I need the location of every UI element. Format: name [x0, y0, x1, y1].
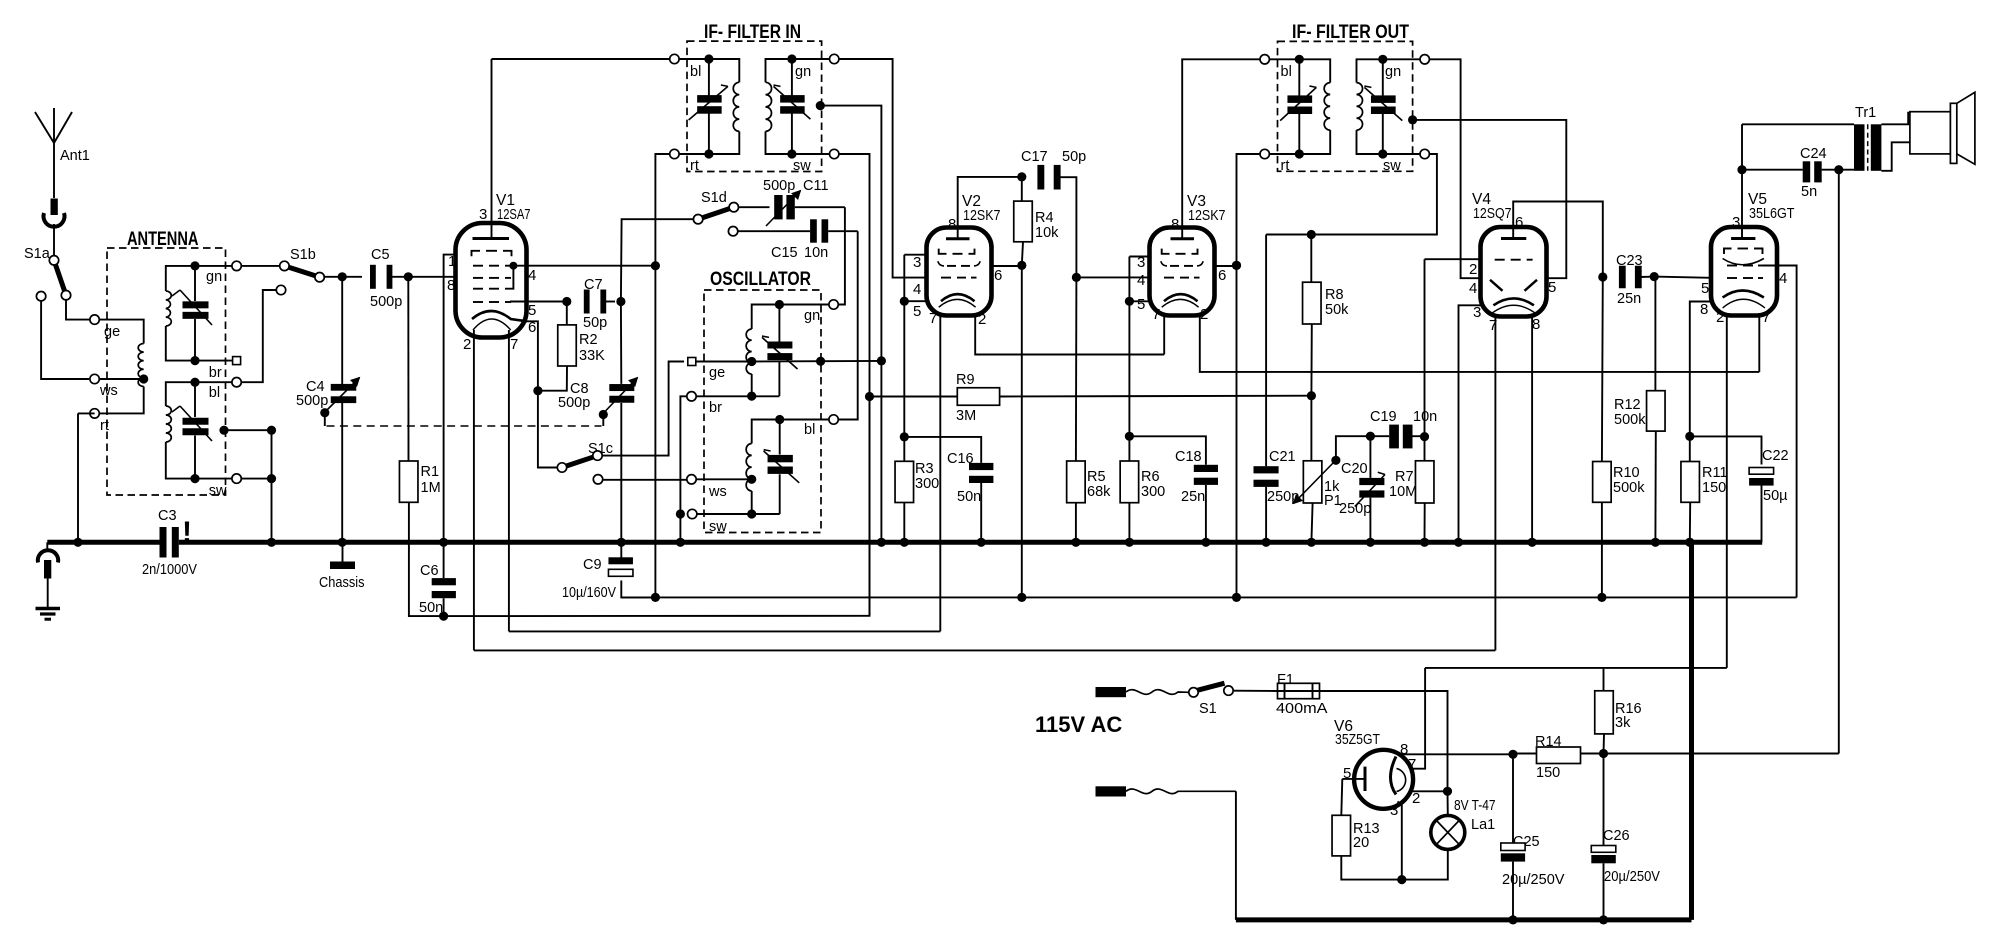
svg-text:2: 2 — [978, 311, 986, 328]
svg-text:8: 8 — [948, 216, 956, 233]
wire volume node to V4 grid — [1425, 258, 1481, 260]
OSCILLATOR box — [704, 269, 821, 533]
wire S1c to oscillator ge — [602, 362, 684, 456]
tube V3 12SK7 envelope — [1150, 193, 1226, 316]
terminal rt (IF in) — [670, 149, 709, 174]
capacitor C17 — [1017, 149, 1086, 277]
capacitor C21 — [1254, 235, 1300, 547]
V5 grid rows — [1723, 249, 1764, 279]
svg-text:35L6GT: 35L6GT — [1749, 205, 1795, 222]
svg-text:33K: 33K — [579, 348, 605, 364]
V6 pin 8 wire to R14 — [1400, 750, 1518, 759]
svg-text:C26: C26 — [1603, 828, 1630, 844]
ground bus (chassis rail) — [47, 540, 1762, 545]
chassis symbol — [319, 545, 365, 591]
svg-text:ge: ge — [104, 324, 120, 340]
svg-text:IF- FILTER OUT: IF- FILTER OUT — [1292, 22, 1409, 43]
svg-text:4: 4 — [1469, 280, 1477, 297]
svg-text:4: 4 — [528, 267, 536, 284]
svg-text:R1: R1 — [421, 464, 440, 480]
svg-text:rt: rt — [690, 158, 699, 174]
heater line V1 pin7 to V2 pin7 — [509, 630, 940, 632]
capacitor C18 — [1129, 436, 1218, 547]
svg-text:4: 4 — [1779, 270, 1787, 287]
V5 plate (pin 3) — [1731, 124, 1755, 238]
wire F1 to V6 heater pin 2 — [1320, 691, 1453, 796]
svg-text:7: 7 — [1408, 756, 1416, 773]
resistor R12 — [1614, 277, 1665, 547]
oscillator coil lower with tap — [746, 415, 784, 519]
terminal ws — [90, 374, 118, 399]
svg-text:2: 2 — [1412, 790, 1420, 807]
wire V3 plate to IF-out bl — [0, 0, 1, 1]
svg-text:R3: R3 — [915, 461, 934, 477]
V5 cathode — [1723, 291, 1765, 309]
V4 heater pin 7 — [1494, 314, 1496, 650]
svg-text:La1: La1 — [1471, 817, 1495, 833]
svg-text:50p: 50p — [1062, 149, 1086, 165]
svg-text:300: 300 — [915, 476, 939, 492]
svg-text:sw: sw — [709, 519, 727, 535]
heater line V6 to V5 — [1425, 667, 1727, 669]
V4 cathode — [1491, 298, 1537, 314]
resistor R1 — [399, 277, 443, 616]
svg-text:7: 7 — [1762, 309, 1770, 326]
svg-text:C20: C20 — [1341, 461, 1368, 477]
svg-text:8: 8 — [1171, 216, 1179, 233]
gang coupling dashed line C4-C8 — [327, 425, 602, 427]
wire S1a spare contact to ws — [36, 292, 89, 380]
svg-text:R2: R2 — [579, 332, 598, 348]
potentiometer P1 — [1294, 396, 1371, 547]
V6 pin labels — [1343, 741, 1420, 819]
label 115V AC — [1035, 712, 1122, 737]
svg-text:R5: R5 — [1087, 469, 1106, 485]
svg-text:7: 7 — [1152, 306, 1160, 323]
svg-text:4: 4 — [1137, 272, 1145, 289]
tuned circuit cap lower (antenna) — [172, 378, 212, 484]
svg-text:3: 3 — [913, 254, 921, 271]
terminal sw (IF out) — [1383, 149, 1430, 174]
svg-text:12SQ7: 12SQ7 — [1473, 205, 1512, 222]
mains lead upper — [1096, 687, 1190, 697]
svg-text:ws: ws — [708, 484, 727, 500]
svg-text:8: 8 — [1532, 316, 1540, 333]
V2 grid rows — [938, 249, 980, 278]
resistor R6 — [1120, 461, 1165, 547]
wire rt to ground bus — [73, 413, 82, 547]
svg-text:20µ/250V: 20µ/250V — [1604, 869, 1660, 885]
svg-text:150: 150 — [1702, 480, 1726, 496]
switch S1b — [241, 247, 324, 282]
terminal gn (IF out) — [1383, 55, 1430, 80]
capacitor C7 — [583, 277, 615, 331]
tube V5 35L6GT envelope — [1711, 191, 1795, 316]
terminal rt (IF out) — [1260, 149, 1299, 174]
V2 pin 6 wire (screen) — [992, 261, 1027, 284]
wire S1a to ge terminal — [66, 300, 90, 320]
V3 heater pin 7 — [1152, 306, 1164, 355]
svg-text:rt: rt — [1281, 158, 1290, 174]
IF-out primary tuned cap — [1280, 55, 1316, 159]
svg-text:Chassis: Chassis — [319, 575, 365, 591]
svg-text:10µ/160V: 10µ/160V — [562, 585, 616, 601]
svg-text:S1d: S1d — [701, 190, 727, 206]
terminal bl (IF out) — [1260, 55, 1299, 80]
V1 pin 4 wire (screen grids) — [513, 261, 660, 284]
V1 heater pin 7 — [509, 330, 518, 631]
svg-text:150: 150 — [1536, 765, 1560, 781]
svg-text:gn: gn — [206, 269, 222, 285]
svg-text:C22: C22 — [1762, 448, 1789, 464]
IF-in secondary tuned cap — [774, 54, 811, 158]
svg-text:3k: 3k — [1615, 715, 1631, 731]
svg-text:68k: 68k — [1087, 484, 1111, 500]
svg-text:6: 6 — [1218, 267, 1226, 284]
wire ge tap out to right — [752, 357, 882, 366]
svg-text:S1: S1 — [1199, 701, 1217, 717]
resistor R3 — [895, 461, 939, 547]
wire IF-in rt to screen supply — [655, 154, 670, 597]
V3 pin 4 label — [1137, 272, 1145, 289]
wire C5 to V1 grid — [390, 272, 456, 281]
wire S1b to C5 and C4 — [324, 272, 362, 281]
variable capacitor C4 — [296, 277, 360, 547]
V6 filament — [1391, 757, 1406, 795]
tube V1 12SA7 envelope — [456, 192, 531, 338]
svg-text:rt: rt — [100, 418, 109, 434]
wire IF-in gn to V2 grid — [839, 59, 927, 278]
switch S1c spare contact to ws — [593, 475, 687, 484]
svg-text:5: 5 — [913, 303, 921, 320]
V3 plate lead (pin 8) — [1171, 59, 1261, 239]
svg-text:3: 3 — [1473, 304, 1481, 321]
svg-text:OSCILLATOR: OSCILLATOR — [710, 269, 811, 290]
IF-out secondary tap to V4 diode — [1408, 115, 1566, 278]
svg-text:ge: ge — [709, 365, 725, 381]
V4 cathode pin 3 wire to ground — [1454, 305, 1481, 547]
svg-text:50k: 50k — [1325, 302, 1349, 318]
V6 cathode plate — [1342, 767, 1365, 791]
svg-text:500p: 500p — [370, 294, 402, 310]
svg-text:sw: sw — [793, 158, 811, 174]
svg-text:C11: C11 — [803, 178, 829, 194]
antenna secondary coil lower — [166, 382, 195, 478]
svg-text:br: br — [209, 365, 222, 381]
svg-text:5: 5 — [1137, 296, 1145, 313]
svg-text:6: 6 — [1515, 214, 1523, 231]
resistor R7 — [1389, 259, 1434, 547]
V3 grid rows — [1161, 249, 1203, 278]
pilot lamp La1 8V T-47 — [1402, 791, 1496, 879]
svg-text:12SK7: 12SK7 — [1188, 207, 1226, 224]
V5 heater pin 2 — [1716, 309, 1727, 668]
V6 pin 2 wire — [1411, 790, 1448, 792]
svg-text:3M: 3M — [956, 408, 976, 424]
wire S1d to V1 osc grid node — [621, 219, 694, 301]
switch S1c — [557, 441, 613, 472]
switch S1a — [24, 246, 71, 300]
wire R14 node to output transformer — [1604, 753, 1839, 755]
svg-text:25n: 25n — [1181, 489, 1205, 505]
svg-text:S1a: S1a — [24, 246, 51, 262]
oscillator tuned cap upper — [762, 305, 798, 397]
capacitor C16 — [904, 437, 993, 547]
svg-text:3: 3 — [479, 206, 487, 223]
V1 pin 8 label — [447, 277, 455, 294]
heater line V1 pin2 to V4 pin7 — [474, 649, 1496, 651]
terminal ge — [90, 315, 120, 340]
svg-text:300: 300 — [1141, 484, 1165, 500]
svg-text:3: 3 — [1390, 802, 1398, 819]
wire V1 plate to IF-in bl — [492, 58, 670, 60]
V5 heater pin 7 — [1759, 309, 1770, 372]
V6 pin 3 wire — [1397, 802, 1406, 885]
terminal br (oscillator) — [687, 392, 780, 416]
V1 pin 5 wire (osc grid) — [510, 297, 571, 319]
node br (antenna) — [195, 357, 241, 381]
capacitor C24 — [1742, 146, 1854, 200]
resistor R8 — [1303, 235, 1350, 396]
svg-text:C9: C9 — [583, 557, 602, 573]
transformer Tr1 — [1742, 105, 1881, 171]
svg-text:12SK7: 12SK7 — [963, 207, 1001, 224]
antenna Ant1 — [35, 108, 90, 198]
svg-text:bl: bl — [209, 385, 220, 401]
svg-text:bl: bl — [804, 422, 815, 438]
wire S1b spare contact to bl — [241, 285, 285, 382]
svg-text:35Z5GT: 35Z5GT — [1335, 731, 1380, 748]
resistor R10 — [1593, 277, 1646, 602]
AVC line — [444, 392, 875, 616]
svg-text:500k: 500k — [1614, 412, 1646, 428]
V4 grid row — [1495, 259, 1533, 261]
IF-out secondary coil — [1357, 59, 1383, 154]
svg-text:3: 3 — [1732, 214, 1740, 231]
switch S1 (mains) — [1189, 683, 1233, 717]
node sw (antenna) — [195, 474, 241, 499]
resistor R5 — [1067, 277, 1111, 547]
tuned circuit cap upper (antenna) — [172, 261, 212, 365]
svg-text:25n: 25n — [1617, 291, 1641, 307]
svg-text:8: 8 — [447, 277, 455, 294]
node bl (oscillator) — [780, 415, 839, 438]
svg-text:IF- FILTER IN: IF- FILTER IN — [704, 22, 801, 43]
V3 pin 6 wire (screen) — [1215, 261, 1242, 284]
svg-text:br: br — [709, 400, 722, 416]
svg-text:R4: R4 — [1035, 210, 1054, 226]
resistor R4 — [1014, 177, 1059, 602]
svg-text:50p: 50p — [583, 315, 607, 331]
svg-text:gn: gn — [795, 64, 811, 80]
svg-text:R9: R9 — [956, 372, 975, 388]
wire V5 plate node down to output B+ — [1838, 170, 1840, 754]
V2 pin 3 wire — [904, 254, 926, 271]
svg-text:400mA: 400mA — [1276, 701, 1328, 717]
earth ground symbol — [36, 609, 61, 620]
IF-in secondary coil — [766, 59, 792, 154]
earth connection at bus left end — [38, 542, 58, 607]
V4 diode plates — [1490, 280, 1537, 291]
V3 heater pin 2 — [1200, 306, 1760, 372]
svg-text:5: 5 — [528, 302, 536, 319]
terminal sw (oscillator) — [676, 509, 780, 547]
svg-text:C19: C19 — [1370, 409, 1397, 425]
tube V4 12SQ7 envelope — [1472, 191, 1547, 317]
svg-text:S1b: S1b — [290, 247, 316, 263]
svg-text:2n/1000V: 2n/1000V — [142, 562, 197, 578]
capacitor C20 — [1339, 432, 1385, 547]
svg-text:2: 2 — [1469, 261, 1477, 278]
svg-text:7: 7 — [929, 310, 937, 327]
svg-text:R12: R12 — [1614, 397, 1641, 413]
svg-text:20µ/250V: 20µ/250V — [1502, 872, 1565, 888]
wire IF-in sw to AVC — [839, 154, 870, 616]
svg-text:C21: C21 — [1269, 449, 1296, 465]
V1 pin 1 wire to ground — [439, 253, 456, 547]
V1 heater pin 2 — [463, 330, 474, 650]
V4 pin labels — [1469, 261, 1556, 334]
capacitor C25 — [1501, 754, 1565, 925]
antenna secondary coil upper — [166, 266, 195, 361]
terminal sw (IF in) — [792, 149, 839, 174]
terminal gn (IF in) — [792, 54, 839, 80]
IF-in primary tuned cap — [689, 54, 728, 158]
V1 pin 6 wire to S1c — [527, 319, 557, 468]
svg-text:10n: 10n — [804, 245, 828, 261]
svg-text:500p: 500p — [763, 178, 795, 194]
capacitor C23 — [1598, 253, 1711, 307]
capacitor C22 50u — [1690, 436, 1789, 542]
V3 pin 3 wire — [1129, 254, 1149, 271]
resistor R11 — [1681, 436, 1728, 547]
V5 pin 8 cathode wire — [1685, 301, 1711, 441]
V2 pin 5 wire to cathode network — [900, 255, 927, 462]
svg-text:8V T-47: 8V T-47 — [1454, 798, 1496, 814]
IF-out primary coil — [1299, 59, 1330, 154]
svg-text:sw: sw — [1383, 158, 1401, 174]
svg-text:250p: 250p — [1339, 501, 1371, 517]
svg-text:500k: 500k — [1613, 480, 1645, 496]
svg-text:4: 4 — [913, 281, 921, 298]
svg-text:bl: bl — [1281, 64, 1292, 80]
svg-text:R10: R10 — [1613, 465, 1640, 481]
wire C15 to oscillator bl — [838, 231, 858, 419]
svg-text:5: 5 — [1343, 765, 1351, 782]
svg-text:ANTENNA: ANTENNA — [127, 229, 199, 250]
capacitor C5 — [370, 247, 402, 310]
svg-text:7: 7 — [510, 336, 518, 353]
svg-text:bl: bl — [690, 64, 701, 80]
svg-text:C15: C15 — [771, 245, 798, 261]
capacitor C19 — [1370, 409, 1437, 448]
node bl (antenna) — [195, 378, 241, 402]
V2 heater pin 7 — [929, 310, 940, 631]
IF-out secondary tuned cap — [1364, 55, 1402, 159]
loudspeaker — [1881, 92, 1975, 171]
svg-text:R7: R7 — [1395, 469, 1414, 485]
svg-text:gn: gn — [804, 308, 820, 324]
V5 pin 5 grid label — [1701, 280, 1709, 297]
V6 pin 7 wire to heater line — [1412, 668, 1426, 769]
svg-text:Ant1: Ant1 — [60, 148, 90, 164]
terminal ge (oscillator) — [688, 358, 752, 382]
capacitor C3 — [142, 508, 197, 578]
svg-text:ws: ws — [99, 383, 118, 399]
antenna plug/jack — [44, 199, 65, 256]
V2 pin 4 label — [913, 281, 921, 298]
terminal bl (IF in) — [670, 54, 709, 80]
B- return line (thick) — [1236, 538, 1695, 920]
variable capacitor C8 — [558, 297, 638, 547]
svg-text:10k: 10k — [1035, 225, 1059, 241]
svg-text:115V AC: 115V AC — [1035, 712, 1122, 737]
svg-text:R8: R8 — [1325, 287, 1344, 303]
resistor R9 — [870, 372, 1317, 424]
svg-text:500p: 500p — [296, 393, 328, 409]
V1 cathode — [472, 311, 527, 330]
IF-in secondary tap to V2 grid return — [816, 101, 886, 547]
IF-in primary coil — [709, 59, 739, 154]
svg-text:50µ: 50µ — [1763, 488, 1788, 504]
svg-text:1M: 1M — [421, 480, 441, 496]
V1 plate (pin 3) — [473, 59, 510, 239]
wire IF-out sw to detector load — [1266, 154, 1437, 239]
wire br to ground — [680, 396, 687, 514]
svg-text:2: 2 — [1200, 306, 1208, 323]
svg-text:C3: C3 — [158, 508, 177, 524]
terminal rt — [90, 409, 109, 434]
V2 plate lead (pin 8) — [946, 177, 1022, 239]
tube V2 12SK7 envelope — [927, 193, 1001, 316]
svg-text:2: 2 — [1716, 309, 1724, 326]
oscillator tuned cap lower — [764, 420, 800, 515]
svg-text:50n: 50n — [957, 489, 981, 505]
wire C11 to oscillator gn — [838, 207, 845, 304]
svg-text:12SA7: 12SA7 — [497, 206, 531, 223]
resistor R2 — [538, 302, 605, 391]
antenna primary coil with tap — [78, 320, 148, 414]
svg-text:Tr1: Tr1 — [1855, 105, 1876, 121]
svg-text:5n: 5n — [1801, 184, 1817, 200]
svg-text:C24: C24 — [1800, 146, 1827, 162]
wire C17 to V3 grid — [1072, 273, 1150, 282]
fuse F1 — [1233, 672, 1328, 717]
svg-text:sw: sw — [209, 483, 227, 499]
IF-FILTER IN box — [687, 22, 822, 172]
capacitor C9 — [562, 542, 660, 602]
svg-text:50n: 50n — [419, 600, 443, 616]
variable capacitor C11 — [738, 178, 845, 226]
V5 pin 4 wire (screen to B+) — [1763, 266, 1797, 598]
svg-text:C5: C5 — [371, 247, 390, 263]
svg-text:20: 20 — [1353, 835, 1369, 851]
terminal ws (oscillator) — [687, 475, 752, 500]
wire IF-out gn to V4 diode — [1429, 59, 1480, 278]
IF-FILTER OUT box — [1278, 22, 1413, 171]
wire IF-out rt to screen supply — [1232, 154, 1260, 602]
V4 heater pin 8 — [1528, 314, 1537, 547]
svg-text:6: 6 — [994, 267, 1002, 284]
svg-text:gn: gn — [1385, 64, 1401, 80]
mains lead lower — [1096, 786, 1236, 796]
V2 cathode — [939, 294, 976, 307]
switch S1d — [693, 190, 738, 224]
svg-text:C18: C18 — [1175, 449, 1202, 465]
capacitor C15 — [728, 219, 857, 261]
svg-text:5: 5 — [1701, 280, 1709, 297]
svg-text:10M: 10M — [1389, 484, 1417, 500]
